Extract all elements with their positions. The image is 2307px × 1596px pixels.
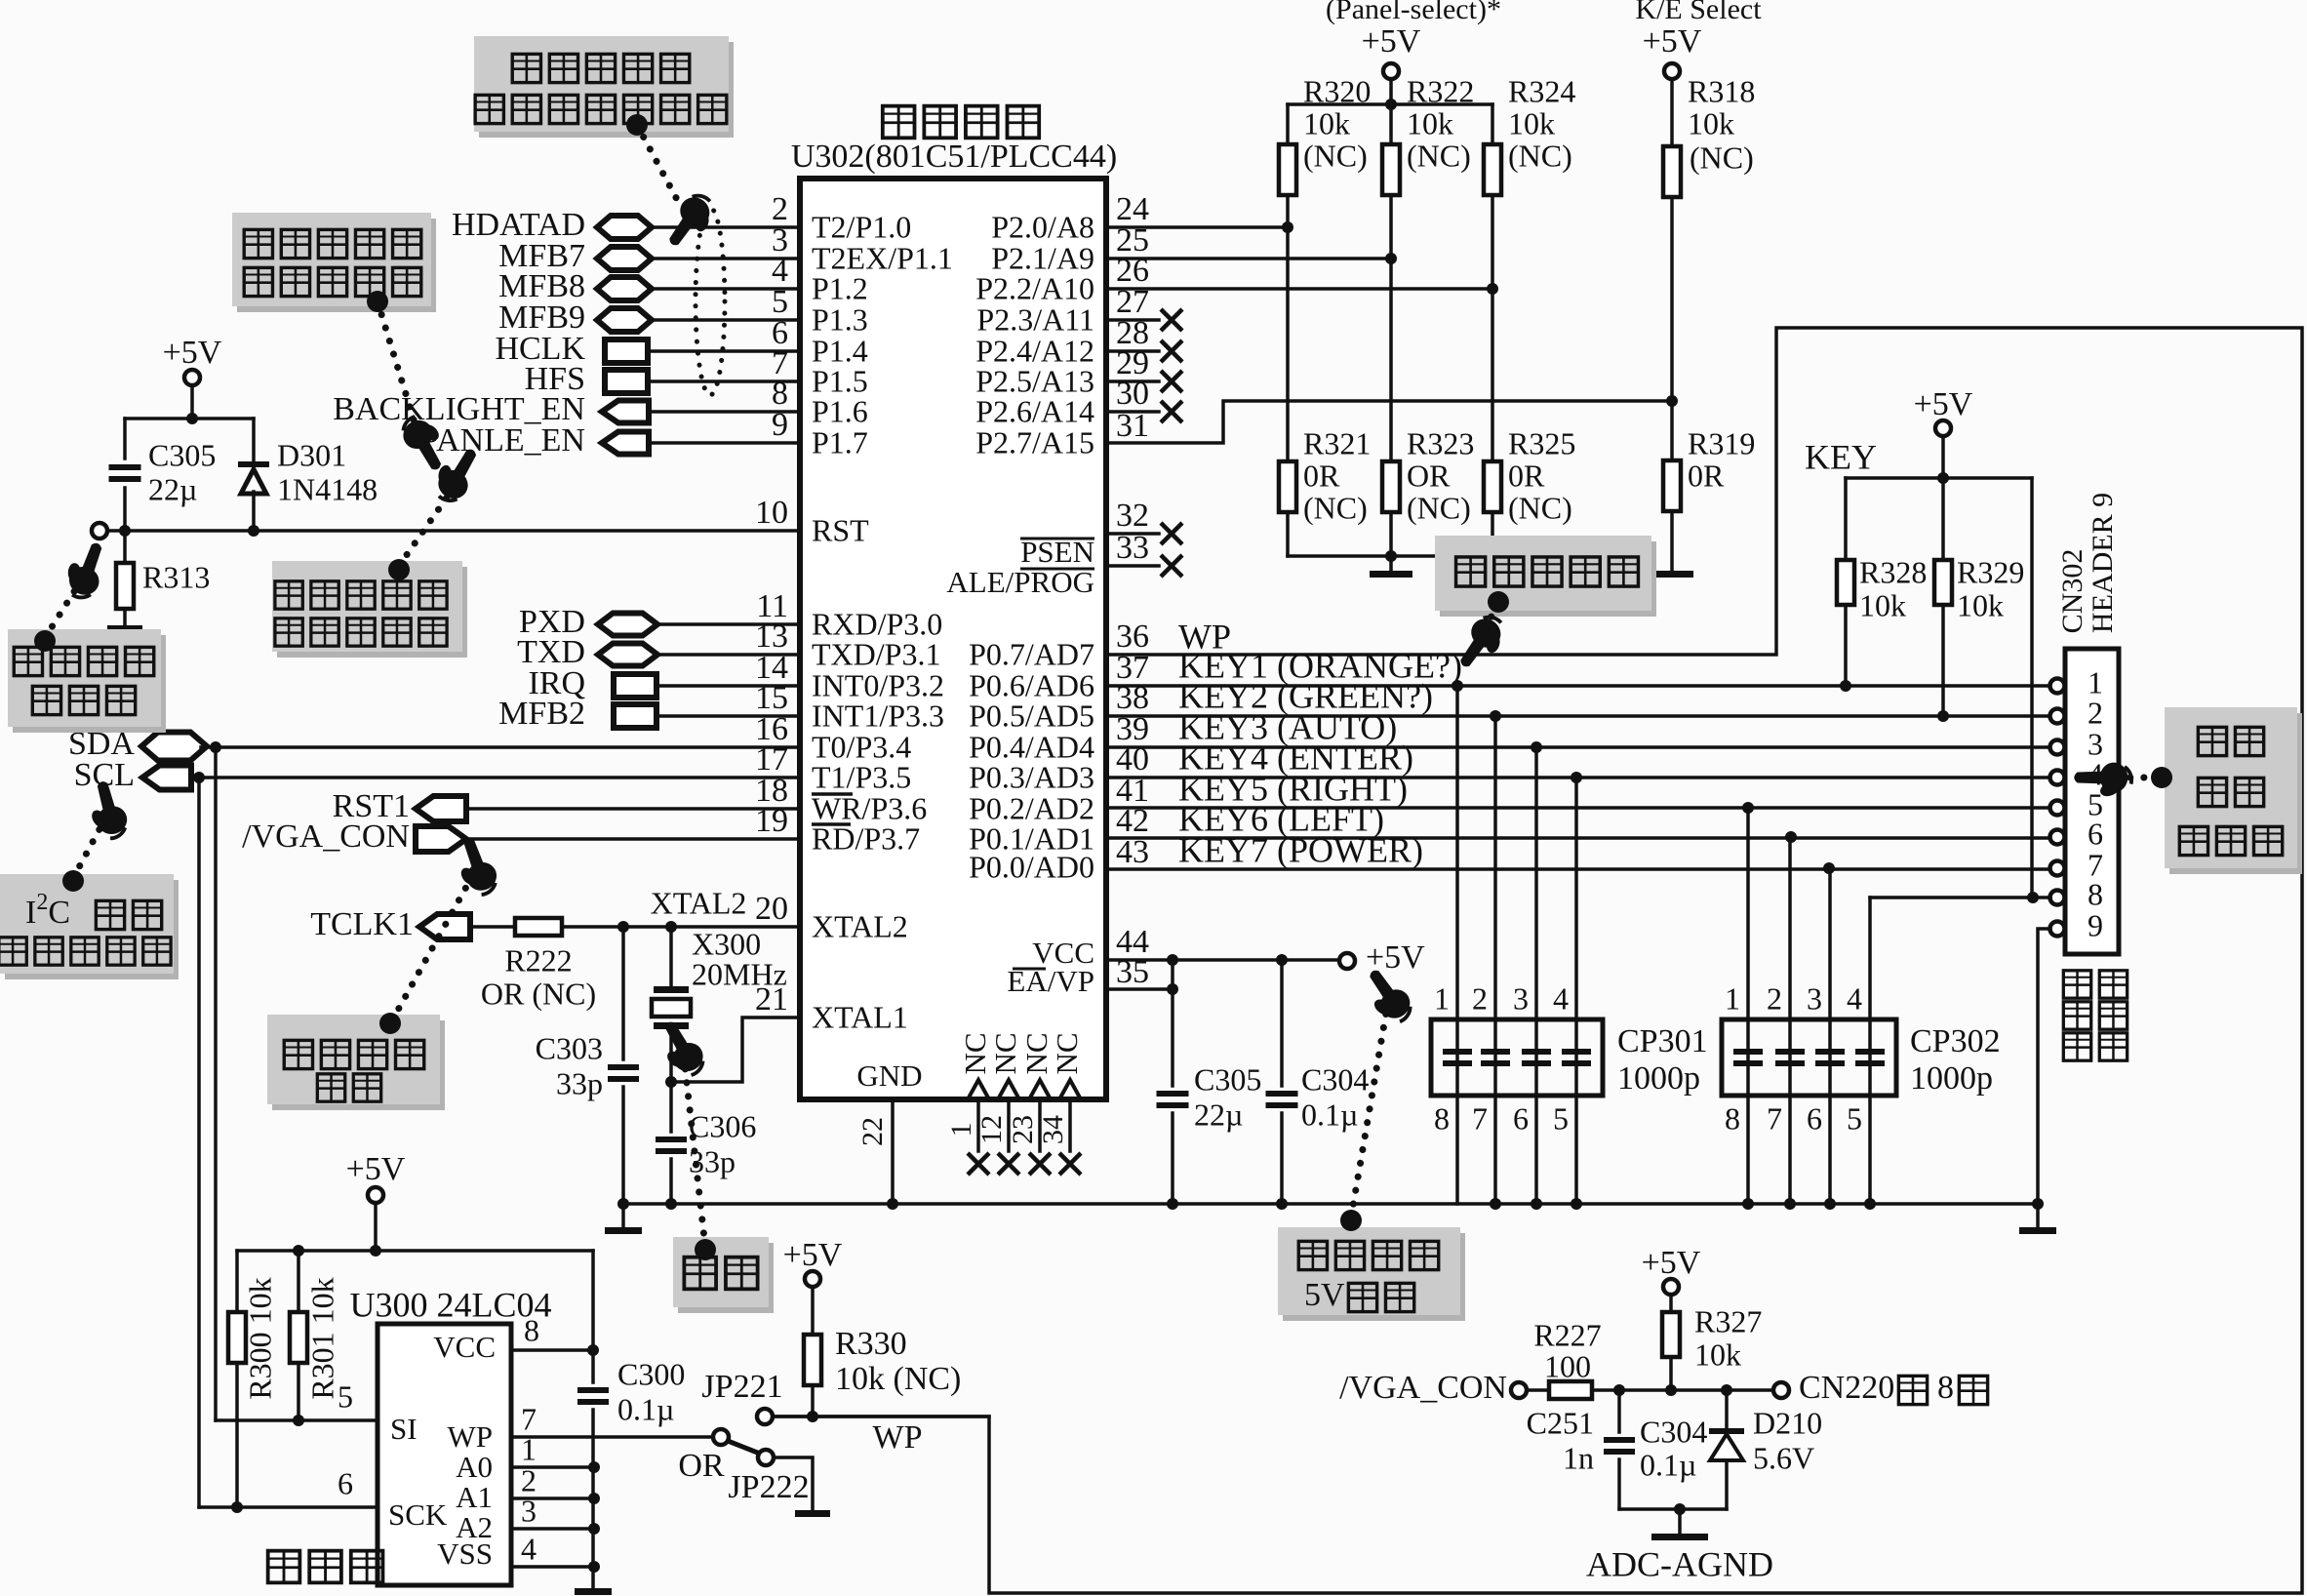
label 操作显示电路 (operation display circuit) [2063,971,2090,998]
wire R227 to CN220 node [1592,1388,1773,1392]
svg-text:(NC): (NC) [1303,490,1368,525]
svg-text:4: 4 [1847,980,1862,1016]
svg-text:C306: C306 [689,1108,756,1143]
svg-text:9: 9 [2088,907,2103,942]
svg-text:(NC): (NC) [1407,138,1471,173]
svg-text:+5V: +5V [1643,23,1702,60]
annotation box 读写控制端 [1440,541,1656,617]
svg-text:P2.6/A14: P2.6/A14 [975,393,1094,428]
wire U300 VSS [511,1565,594,1569]
svg-text:0R: 0R [1303,458,1340,493]
connector CN302 HEADER 9 body [2065,649,2119,954]
svg-text:32: 32 [1116,498,1149,534]
svg-text:R330: R330 [835,1326,907,1362]
capacitor C304 0.1u (supply) [1280,960,1284,1086]
svg-text:1: 1 [1434,980,1450,1016]
junction KEY2/CP301.2 [1490,710,1501,722]
svg-text:10k: 10k [1957,587,2004,622]
svg-text:1000p: 1000p [1910,1060,1993,1097]
ground (R323) [1370,571,1412,578]
junction C305/bus [1167,1198,1178,1210]
wire KEY5 net [1106,806,2050,810]
svg-text:OR (NC): OR (NC) [481,976,596,1011]
svg-text:8: 8 [524,1312,539,1347]
junction C303/XTAL2 [617,921,629,933]
svg-text:33p: 33p [556,1065,603,1100]
svg-text:CP302: CP302 [1910,1023,2001,1059]
svg-text:5: 5 [1847,1100,1862,1136]
svg-text:PANLE_EN: PANLE_EN [420,422,585,459]
overline PROG [1020,568,1094,571]
resistor R330 10k (NC) [811,1287,815,1335]
wire XTAL1 to pin 21 [671,1017,800,1082]
CN302 pin 7 [2050,861,2065,876]
svg-text:XTAL2: XTAL2 [651,885,747,920]
svg-text:20: 20 [755,891,788,927]
svg-text:P1.7: P1.7 [812,424,868,459]
wire /VGA_CON to R227 [1527,1388,1549,1392]
leader line annotation4 [45,585,78,638]
annotation box 与主控芯片进行通信的接口 [479,42,734,138]
junction KEY5/CP302.1 [1742,802,1754,814]
svg-text:R322: R322 [1407,73,1474,108]
svg-text:10: 10 [755,495,788,531]
svg-text:3: 3 [1807,980,1822,1016]
resistor R329 10k [1941,478,1945,560]
zener diode D210 5.6V [1725,1390,1729,1428]
svg-text:T1/P3.5: T1/P3.5 [812,759,911,794]
junction C304/VCC [1276,954,1288,966]
overline RD [812,822,851,826]
CN302 pin 5 [2050,801,2065,816]
capacitor C303 33p [621,927,625,1059]
svg-text:/VGA_CON: /VGA_CON [242,818,410,855]
svg-text:8: 8 [1434,1100,1450,1136]
leader line annotation3 [399,488,454,566]
resistor R227 100 [1549,1381,1592,1399]
svg-text:22µ: 22µ [1194,1097,1243,1132]
svg-text:CN302: CN302 [2056,549,2088,634]
hand cursor at PANLE_EN [426,439,487,506]
U300 VCC wire (pin8) [511,1348,593,1352]
svg-text:CP301: CP301 [1617,1023,1708,1059]
junction CP301 pin7/bus [1490,1198,1501,1210]
annotation box 微处理器复位端 [13,635,166,733]
label 存储器 (memory) [268,1551,300,1583]
svg-text:GND: GND [856,1058,922,1093]
junction KEY1/CP301.1 [1452,680,1463,692]
wire MFB2 to U302 [656,714,800,718]
leader dot (annotation6) [379,1013,401,1034]
wire pin29 (NC) [1106,379,1159,383]
wire TXD to U302 [657,653,800,657]
svg-text:R318: R318 [1688,73,1755,108]
leader line annotation5 [73,829,99,878]
power +5V (reset circuit) [184,370,200,385]
capacitor C305 (22u, reset) [123,419,127,459]
U302 NC pin 1 [968,1080,989,1099]
leader dot (annotation2) [367,291,388,312]
svg-text:10k: 10k [1303,105,1350,140]
wire /VGA_CON to pin 19 [468,837,800,841]
svg-text:JP221: JP221 [701,1369,782,1405]
leader dot (annotation9) [1340,1210,1362,1231]
wire +5V rail down to CN302 pin8 [2030,478,2034,898]
svg-text:12: 12 [975,1115,1008,1144]
junction R301/SI [293,1415,304,1426]
wire +5V stub [1389,79,1393,104]
wire BACKLIGHT_EN to U302 pin 8 [649,410,800,414]
ground (U300/C300) [575,1588,612,1595]
svg-text:1N4148: 1N4148 [277,471,378,506]
svg-text:MFB2: MFB2 [498,696,585,732]
wire IRQ to U302 [656,684,800,688]
wire PANLE_EN to U302 pin 9 [649,441,800,445]
junction KEY4/CP301.4 [1571,772,1582,783]
dashed grouping ellipse around P1 bus [696,208,725,395]
svg-text:R328: R328 [1859,554,1927,589]
CN302 pin 1 [2050,679,2065,694]
junction pin22/bus [887,1198,898,1210]
junction X300/XTAL1/C306 [665,1076,677,1088]
annotation box 微处理器5V供电 [1283,1233,1465,1321]
svg-text:34: 34 [1037,1115,1069,1144]
capacitor C300 0.1u [591,1350,595,1382]
wire HCLK to U302 pin 6 [648,349,800,353]
wire HDATAD to U302 pin 2 [652,225,800,229]
wire PXD to U302 [657,622,800,626]
svg-text:OR: OR [678,1448,725,1484]
U302 NC pin 12 [998,1080,1019,1099]
svg-text:4: 4 [521,1531,537,1566]
svg-text:P0.3/AD3: P0.3/AD3 [969,759,1094,794]
capacitor C251 1n [1617,1390,1621,1432]
svg-text:T2/P1.0: T2/P1.0 [812,209,911,244]
svg-text:A1: A1 [456,1480,493,1514]
junction gnd stub [1385,550,1397,562]
wire pin32 (NC) [1106,532,1159,536]
junction CP302 pin7/bus [1784,1198,1796,1210]
svg-text:10k: 10k [1407,105,1453,140]
svg-text:KEY: KEY [1805,437,1877,476]
svg-text:NC: NC [1050,1032,1084,1074]
svg-text:8: 8 [2088,876,2103,911]
svg-text:P2.2/A10: P2.2/A10 [975,270,1094,305]
svg-text:(NC): (NC) [1690,140,1754,175]
wire TCLK1 to R222 [470,925,515,929]
wire CN302 pin9 to ground [2038,929,2050,1204]
wire MFB8 to U302 pin 4 [652,287,800,291]
svg-text:D210: D210 [1753,1405,1822,1440]
svg-text:1n: 1n [1563,1440,1594,1475]
junction R327 [1665,1384,1677,1396]
annotation box 晶体 [678,1243,774,1313]
svg-text:7: 7 [1472,1100,1488,1136]
wire pin24 to R320/R321 [1106,225,1288,229]
resistor R327 10k [1669,1295,1673,1312]
svg-text:6: 6 [1807,1100,1822,1136]
junction CP301 pin6/bus [1531,1198,1542,1210]
CP301 column 4 [1574,778,1578,1204]
capacitor C305 22u (supply) [1171,960,1174,1086]
svg-text:C300: C300 [617,1356,685,1391]
wire HFS to U302 pin 7 [648,379,800,383]
hand cursor at crystal [650,1016,710,1083]
leader dot (annotation3) [388,559,410,580]
svg-text:R327: R327 [1694,1303,1762,1338]
wire KEY6 net [1106,836,2050,840]
annotation box 键控信号输入端 [2169,713,2302,874]
wire KEY2 net [1106,714,2050,718]
svg-text:5V: 5V [1304,1277,1345,1313]
hand cursor at reset terminal [59,537,112,603]
annotation box 背光灯点亮使能控制端 [237,219,436,312]
svg-text:8: 8 [1937,1370,1954,1406]
wire pin28 (NC) [1106,349,1159,353]
svg-text:0.1µ: 0.1µ [617,1391,674,1426]
svg-text:INT1/P3.3: INT1/P3.3 [812,698,944,733]
svg-text:TXD/P3.1: TXD/P3.1 [812,636,940,671]
svg-text:HEADER 9: HEADER 9 [2087,493,2119,633]
hand cursor at SCL [81,778,131,842]
U302 GND pin 22 [891,1099,895,1204]
junction ADC-AGND stub [1674,1503,1686,1515]
svg-text:R300 10k: R300 10k [242,1277,277,1399]
svg-text:2: 2 [2088,695,2103,730]
hand cursor at P1 bus [659,188,722,256]
wire SDA to pin 16 [201,745,800,749]
resistor R318 10k (NC) [1670,79,1674,146]
power +5V terminal (microprocessor 5V) [1339,953,1355,969]
junction pin35/C305 line [1167,983,1178,995]
capacitor C306 33p [669,1082,673,1132]
svg-text:KEY7 (POWER): KEY7 (POWER) [1178,830,1423,869]
svg-text:R320: R320 [1303,73,1371,108]
CN302 pin 6 [2050,830,2065,845]
junction CP302 pin6/bus [1824,1198,1836,1210]
wire C251/C304/D210 common [1619,1507,1727,1511]
svg-text:+5V: +5V [346,1151,406,1187]
jumper switch arm JP221-JP222 [713,1429,729,1445]
leader dot (annotation1) [626,114,648,136]
wire MFB9 to U302 pin 5 [652,318,800,322]
label 微处理器 (microprocessor) [883,106,915,139]
junction SDA [210,741,221,753]
CN302 pin 2 [2050,709,2065,724]
annotation box 液晶屏开启使能控制端 [277,567,467,658]
svg-text:0R: 0R [1508,458,1545,493]
ground (R313) [107,625,142,632]
junction KEY3/CP301.3 [1531,741,1542,753]
svg-text:XTAL1: XTAL1 [812,999,908,1034]
leader line annotation7 [685,1065,705,1247]
junction C304/bus [1276,1198,1288,1210]
wire ground bus [623,1202,2038,1206]
junction R300/SCK [231,1501,243,1513]
svg-text:3: 3 [1513,980,1529,1016]
hand cursor at +5V terminal [1355,963,1417,1030]
leader line annotation8 [1478,605,1498,639]
leader dot (annotation10) [2151,767,2172,788]
wire pin33 (NC) [1106,564,1159,568]
svg-text:2: 2 [1767,980,1782,1016]
CN302 pin 9 [2050,922,2065,937]
resistor R319 0R [1670,401,1674,460]
capacitor network CP302 1000p body [1722,1019,1896,1096]
ground (R319) [1651,571,1693,578]
svg-text:C304: C304 [1640,1414,1707,1449]
svg-text:0.1µ: 0.1µ [1301,1097,1358,1132]
junction R330/WP [807,1411,818,1422]
junction +5V rail [186,413,198,424]
resistor R313 [123,531,127,563]
svg-text:C304: C304 [1301,1061,1369,1097]
capacitor network CP301 1000p body [1431,1019,1603,1096]
hand cursor at WP wire [1451,610,1513,677]
resistor R300 10k [235,1251,239,1312]
wire +5V stub [374,1203,378,1251]
junction C251 [1613,1384,1625,1396]
wire top rail C305-D301 [125,417,254,420]
svg-text:U302(801C51/PLCC44): U302(801C51/PLCC44) [791,139,1117,175]
resistor R320 10k (NC) [1286,104,1290,144]
U300 SCK wire (pin6) [199,1505,378,1509]
memory U300 24LC04 body [378,1324,511,1585]
svg-text:P1.2: P1.2 [812,270,868,305]
U302 NC pin 34 [1059,1080,1081,1099]
svg-text:(NC): (NC) [1407,490,1471,525]
svg-text:RST: RST [812,512,869,547]
svg-text:R301 10k: R301 10k [304,1277,339,1399]
svg-text:R325: R325 [1508,425,1575,460]
svg-text:NC: NC [1019,1032,1054,1074]
resistor R222 (0R NC) [515,918,562,936]
junction C306/bus [665,1198,677,1210]
terminal: reset input node [92,523,107,539]
svg-text:P0.5/AD5: P0.5/AD5 [969,698,1094,733]
junction C305/VCC [1167,954,1178,966]
junction CP302 pin8/bus [1742,1198,1754,1210]
U302 NC pin 23 [1029,1080,1051,1099]
svg-text:U300 24LC04: U300 24LC04 [350,1285,552,1324]
svg-text:R321: R321 [1303,425,1371,460]
annotation box 信号识别端口 [272,1020,445,1110]
wire +5V rail R320/R322/R324 [1288,102,1492,106]
svg-text:C303: C303 [536,1030,603,1065]
svg-text:7: 7 [1767,1100,1782,1136]
hand cursor at CN302 pin4 [2074,763,2131,799]
svg-text:22µ: 22µ [148,471,197,506]
svg-text:P0.7/AD7: P0.7/AD7 [969,636,1094,671]
svg-text:VSS: VSS [437,1536,493,1571]
wire pin31 to R318/R319 (K/E select) [1106,401,1672,443]
microcontroller U302 801C51/PLCC44 body [800,179,1106,1099]
svg-text:D301: D301 [277,437,346,472]
junction KEY2/R329 [1937,710,1949,722]
svg-text:TCLK1: TCLK1 [310,906,414,942]
leader dot (annotation5) [62,870,84,892]
wire KEY1 net [1106,684,2050,688]
wire rail down to VCC [591,1251,595,1350]
wire WP net loop (pin36-JP221) [773,328,2302,1593]
svg-text:1000p: 1000p [1617,1060,1700,1097]
svg-text:10k: 10k [1694,1337,1741,1372]
svg-text:R323: R323 [1407,425,1474,460]
ground (JP222) [795,1510,830,1517]
svg-text:/VGA_CON: /VGA_CON [1339,1370,1507,1406]
terminal CN220 pin8 [1773,1382,1789,1398]
svg-text:5.6V: 5.6V [1753,1440,1814,1475]
CN302 pin 4 [2050,771,2065,785]
ground ADC-AGND [1651,1534,1708,1540]
svg-text:C305: C305 [148,437,216,472]
junction R301 top [293,1245,304,1257]
svg-text:+5V: +5V [1362,23,1421,60]
wire +5V to rail [190,385,194,419]
wire KEY3 net [1106,745,2050,749]
svg-text:8: 8 [1725,1100,1740,1136]
junction D210 [1721,1384,1732,1396]
annotation box I2C总线控制信号端 [5,880,179,979]
svg-text:6: 6 [1513,1100,1529,1136]
CP301 column 1 [1455,686,1459,1204]
svg-text:10k: 10k [1508,105,1555,140]
svg-text:R319: R319 [1688,425,1755,460]
junction pin8/rail [2027,892,2039,903]
junction CP301 pin5/bus [1571,1198,1582,1210]
svg-text:K/E Select: K/E Select [1635,0,1762,25]
wire rail R328/R329 [1846,476,2032,480]
svg-text:R222: R222 [504,942,572,978]
svg-text:0.1µ: 0.1µ [1640,1447,1696,1482]
U300 SI wire (pin5) [216,1418,378,1422]
svg-text:22: 22 [856,1117,889,1146]
junction CP302 pin5/bus [1864,1198,1876,1210]
svg-text:10k: 10k [1688,105,1734,140]
resistor R324 10k (NC) [1491,104,1494,144]
svg-text:+5V: +5V [1366,939,1425,976]
svg-text:0R: 0R [1688,458,1725,493]
leader line annotation9 [1351,1007,1387,1217]
junction SCL [193,772,205,783]
svg-text:(NC): (NC) [1508,490,1572,525]
svg-text:P2.0/A8: P2.0/A8 [991,209,1094,244]
svg-text:6: 6 [2088,816,2103,851]
resistor R321 0R (NC) [1286,227,1290,461]
svg-text:+5V: +5V [163,335,222,371]
CP302 column 2 [1788,837,1792,1204]
terminal /VGA_CON [1511,1382,1527,1398]
svg-text:2: 2 [1472,980,1488,1016]
svg-text:P2.3/A11: P2.3/A11 [976,301,1094,337]
svg-text:R329: R329 [1957,554,2024,589]
svg-text:C305: C305 [1194,1061,1261,1097]
wire pin25 to R322/R323 [1106,257,1391,260]
junction pin31/R318/R319 [1666,395,1678,407]
wire RST1 to pin 18 [466,807,800,811]
svg-text:ADC-AGND: ADC-AGND [1586,1544,1773,1583]
wire SDA vertical to U300 SI [214,747,218,1420]
ground (bus left) [605,1227,642,1234]
svg-text:+5V: +5V [1914,386,1973,422]
junction KEY6/CP302.2 [1785,831,1797,843]
resistor R301 10k [297,1251,300,1312]
junction KEY7/CP302.3 [1823,862,1835,874]
svg-text:R313: R313 [142,559,210,594]
wire +5V stub [1941,436,1945,478]
svg-text:NC: NC [988,1032,1022,1074]
junction bus/ground stub [617,1198,629,1210]
